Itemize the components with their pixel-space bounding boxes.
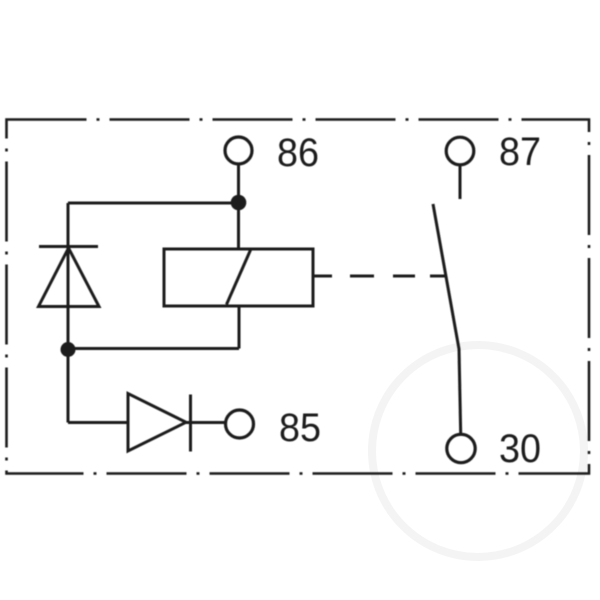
wire node B down bbox=[67, 350, 70, 423]
diode D1 triangle (anode, pointing up) bbox=[39, 248, 100, 307]
mechanical link (dashed) segment 1 bbox=[350, 275, 374, 278]
svg-text:87: 87 bbox=[499, 130, 541, 174]
terminal 87 bbox=[446, 137, 474, 165]
terminal 30 bbox=[447, 434, 475, 462]
wire terminal 87 down bbox=[459, 165, 462, 200]
wire left vertical (node A branch to diode D1) bbox=[67, 203, 70, 350]
relay coil K1 (rectangle) bbox=[164, 249, 313, 306]
wire node A to coil top bbox=[237, 203, 240, 251]
mechanical link (dashed) segment 3 bbox=[430, 275, 446, 278]
wire diode D2 to terminal 85 bbox=[186, 421, 226, 424]
relay enclosure boundary (dash-dot frame) bbox=[7, 120, 590, 474]
diode D1 cathode bar bbox=[39, 245, 98, 248]
diode D2 cathode bar bbox=[189, 395, 192, 452]
relay coil K1 diagonal stroke bbox=[227, 250, 251, 305]
wire node B horizontal bbox=[68, 347, 239, 350]
terminal 86 bbox=[225, 137, 252, 164]
switch contact blade bbox=[433, 204, 461, 434]
svg-text:30: 30 bbox=[499, 427, 541, 471]
wire to diode D2 anode bbox=[68, 421, 129, 424]
svg-text:86: 86 bbox=[277, 131, 319, 175]
terminal 85 bbox=[226, 410, 254, 438]
mechanical link (dashed) segment 2 bbox=[393, 275, 415, 278]
node B (junction dot) bbox=[61, 342, 76, 357]
svg-text:85: 85 bbox=[279, 406, 321, 450]
wire coil bottom down bbox=[238, 305, 241, 349]
node A (junction dot) bbox=[231, 195, 247, 211]
diode D2 triangle (pointing right) bbox=[128, 394, 186, 452]
wire node A left horizontal bbox=[68, 202, 239, 205]
coil right stub wire bbox=[313, 275, 332, 278]
wire terminal 86 to node A bbox=[237, 164, 240, 202]
